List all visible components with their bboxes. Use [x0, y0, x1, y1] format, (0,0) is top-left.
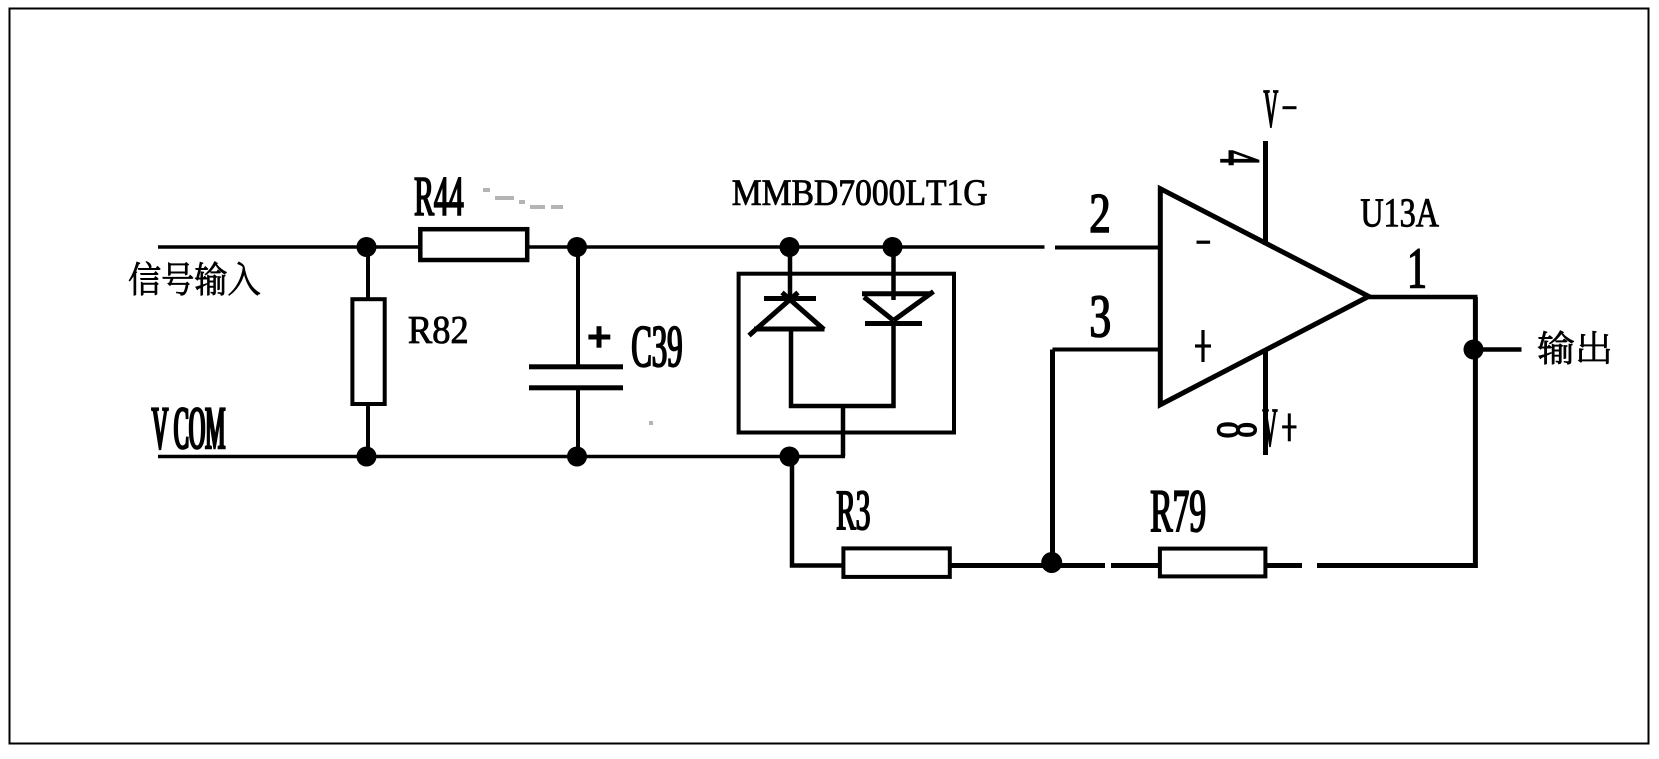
wire pin 3	[1053, 348, 1161, 352]
resistor R79	[1160, 549, 1266, 577]
wire gap segment before R79	[1111, 563, 1160, 568]
wire diode common tie	[789, 404, 896, 409]
op-amp label U13A	[1361, 199, 1439, 227]
diode D1 (left, cathode up)	[749, 247, 825, 408]
wire top input segment	[158, 245, 420, 249]
node junction dot top D2	[883, 237, 903, 257]
pin label 1	[1411, 249, 1425, 287]
diode pack box	[739, 274, 954, 433]
power label V-	[1264, 91, 1278, 128]
faint erased value marks	[483, 188, 653, 425]
resistor R44	[420, 229, 527, 260]
wire up to pin 3	[1050, 350, 1055, 564]
pin number 4 (rotated)	[1221, 151, 1259, 165]
node output label 输出	[1538, 331, 1610, 364]
node junction dot bottom C39	[567, 447, 587, 467]
op-amp minus sign	[1197, 241, 1211, 244]
wire top middle segment	[527, 245, 1045, 249]
node input label 信号输入	[129, 262, 260, 296]
wire top segment into pin 2	[1055, 246, 1160, 250]
op-amp plus sign	[1201, 330, 1204, 362]
wire output stub	[1475, 347, 1522, 352]
wire diode center tap down	[841, 406, 846, 457]
node junction dot feedback	[1041, 552, 1062, 573]
node V COM label	[152, 408, 225, 449]
power pin V+ line	[1263, 349, 1268, 456]
wire output down	[1473, 297, 1478, 568]
node junction dot top C39	[567, 237, 587, 257]
wire R3 to junction	[950, 563, 1105, 568]
wire R79 right segments	[1266, 563, 1302, 568]
pin number 8 (rotated)	[1217, 423, 1256, 437]
node junction dot bottom R82	[357, 447, 377, 467]
capacitor C39	[576, 247, 580, 365]
pin label 3	[1091, 296, 1109, 337]
diode pack label MMBD7000LT1G	[733, 180, 987, 205]
node junction dot top R82	[357, 237, 377, 257]
power pin V- line	[1263, 141, 1268, 245]
node junction dot top D1	[780, 237, 800, 257]
resistor R3	[843, 548, 949, 577]
diode D2 (right, cathode down)	[862, 247, 934, 408]
wire V COM bottom	[158, 455, 845, 459]
pin label 2	[1091, 195, 1108, 232]
node junction dot bottom D1	[780, 447, 800, 467]
resistor R82	[366, 247, 370, 299]
power label V+	[1263, 410, 1277, 447]
wire output from apex	[1368, 295, 1478, 300]
node output junction dot	[1464, 340, 1484, 360]
op-amp U13A triangle	[1160, 189, 1368, 405]
wire drop to R3	[792, 457, 843, 566]
